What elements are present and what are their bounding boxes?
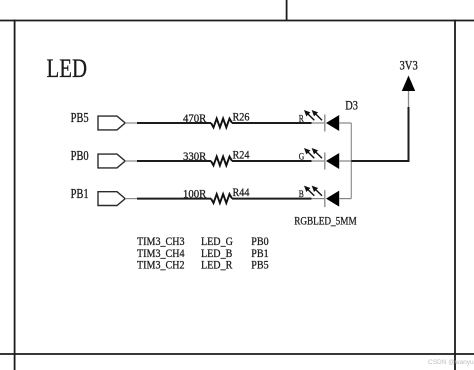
svg-text:PB1: PB1 bbox=[71, 186, 89, 202]
port PB1 bbox=[98, 192, 125, 206]
svg-text:R44: R44 bbox=[233, 186, 250, 199]
LED B emission arrow 1 bbox=[304, 186, 314, 196]
sheet border left line bbox=[14, 20, 16, 370]
LED D3 blue element pin lead bbox=[312, 198, 325, 200]
wire PB0 to R24 bbox=[137, 160, 211, 162]
LED D3 green element pin lead bbox=[312, 160, 325, 162]
wire R44 to LED B bbox=[232, 198, 312, 200]
svg-text:100R: 100R bbox=[183, 188, 207, 201]
LED D3 red right lead bbox=[339, 122, 351, 124]
svg-text:R24: R24 bbox=[233, 149, 250, 162]
resistor R26 zigzag bbox=[211, 119, 232, 128]
svg-text:PB5: PB5 bbox=[251, 259, 269, 272]
wire LED common to 3V3 bbox=[351, 107, 408, 162]
port PB5 pin lead bbox=[125, 122, 137, 124]
svg-text:CSDN @wanyua: CSDN @wanyua bbox=[428, 359, 474, 366]
LED D3 green right lead bbox=[339, 160, 351, 162]
port PB5 bbox=[98, 116, 125, 130]
resistor R44 zigzag bbox=[211, 194, 232, 203]
LED D3 red element pin lead bbox=[312, 122, 325, 124]
svg-text:R: R bbox=[299, 113, 304, 124]
table line 2: TIM3_CH4 LED_B PB1 bbox=[137, 247, 269, 260]
LED D3 green cathode bar bbox=[324, 153, 326, 170]
power 3V3 lead bbox=[408, 91, 410, 107]
wire PB1 to R44 bbox=[137, 198, 211, 200]
LED G emission arrow 2 bbox=[312, 148, 322, 158]
LED D3 red triangle bbox=[326, 115, 339, 131]
LED D3 blue triangle bbox=[326, 191, 339, 207]
svg-text:G: G bbox=[299, 151, 304, 162]
svg-text:470R: 470R bbox=[183, 112, 207, 125]
power symbol 3V3 arrow bbox=[402, 76, 415, 92]
wire PB5 to R26 bbox=[137, 122, 211, 124]
sheet border bottom line bbox=[0, 353, 474, 355]
LED common anode connector bbox=[350, 123, 352, 199]
sheet border top line bbox=[0, 20, 474, 22]
port PB1 pin lead bbox=[125, 198, 137, 200]
sheet border top center tick bbox=[286, 0, 288, 21]
LED R emission arrow 2 bbox=[312, 110, 322, 120]
LED D3 red cathode bar bbox=[324, 115, 326, 132]
svg-text:R26: R26 bbox=[233, 111, 250, 124]
table line 1: TIM3_CH3 LED_G PB0 bbox=[137, 235, 269, 248]
table line 3: TIM3_CH2 LED_R PB5 bbox=[137, 259, 269, 272]
svg-text:B: B bbox=[299, 188, 304, 199]
LED G emission arrow 1 bbox=[304, 148, 314, 158]
svg-text:RGBLED_5MM: RGBLED_5MM bbox=[294, 216, 356, 228]
LED B emission arrow 2 bbox=[312, 186, 322, 196]
svg-text:330R: 330R bbox=[183, 150, 207, 163]
wire R24 to LED G bbox=[232, 160, 312, 162]
port PB0 bbox=[98, 154, 125, 168]
svg-text:3V3: 3V3 bbox=[400, 59, 418, 73]
LED D3 green triangle bbox=[326, 153, 339, 169]
svg-text:PB5: PB5 bbox=[71, 110, 89, 126]
svg-text:PB0: PB0 bbox=[71, 148, 89, 164]
svg-text:TIM3_CH2: TIM3_CH2 bbox=[137, 259, 185, 272]
LED R emission arrow 1 bbox=[304, 110, 314, 120]
wire R26 to LED R bbox=[232, 122, 312, 124]
port PB0 pin lead bbox=[125, 160, 137, 162]
svg-text:LED: LED bbox=[47, 55, 87, 84]
sheet border right line bbox=[454, 20, 456, 370]
LED D3 blue right lead bbox=[339, 198, 351, 200]
svg-text:LED_R: LED_R bbox=[201, 259, 233, 272]
svg-text:D3: D3 bbox=[345, 98, 358, 112]
resistor R24 zigzag bbox=[211, 157, 232, 166]
LED D3 blue cathode bar bbox=[324, 190, 326, 207]
